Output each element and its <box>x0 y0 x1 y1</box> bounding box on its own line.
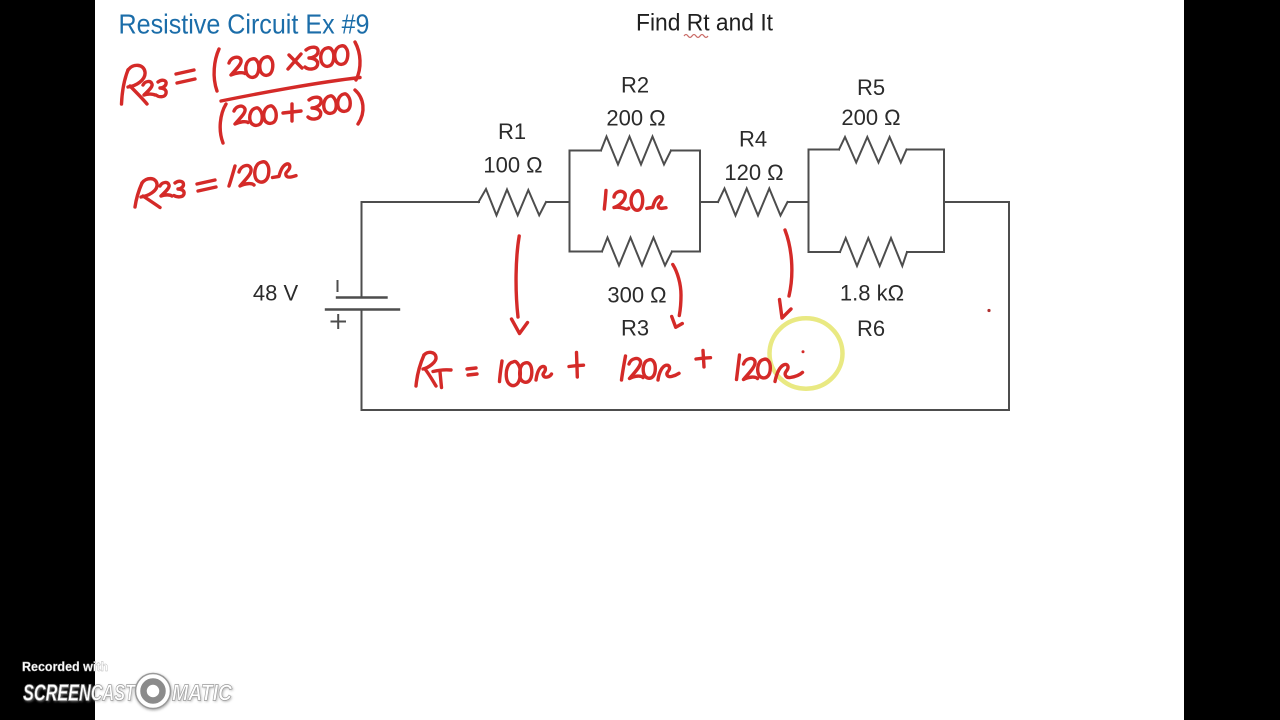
watermark shadow <box>24 674 234 711</box>
svg-text:200 Ω: 200 Ω <box>841 105 900 130</box>
parallel box R5/R6 left edge <box>808 150 810 253</box>
parallel box R5/R6 right edge <box>943 150 945 253</box>
equation omega 1 <box>536 366 552 380</box>
wire: bottom return <box>362 409 1010 411</box>
wire: box2 to right vertical <box>944 201 1009 203</box>
box2 top edge segments <box>809 149 840 151</box>
handwritten subscript 2 <box>143 81 155 95</box>
svg-text:R1: R1 <box>498 119 526 144</box>
red arrow right of R3 <box>673 265 681 316</box>
right pillarbox bar <box>1184 0 1280 720</box>
denominator digit 0 <box>250 108 263 126</box>
box1 bottom edge segments <box>570 251 603 253</box>
resistor R1 zigzag <box>479 189 547 215</box>
equation plus 2 <box>696 358 711 359</box>
line2 subscript 2 <box>160 182 172 196</box>
wire: main top left segment <box>362 201 480 203</box>
stray red dot right side <box>987 309 990 312</box>
equation 100 digit 0 <box>506 361 520 385</box>
equation 120b digit 2 <box>744 358 758 379</box>
denominator close paren <box>355 90 363 124</box>
wire: left vertical lower (battery to bottom) <box>361 310 363 410</box>
equation letter R <box>416 355 424 386</box>
svg-text:100 Ω: 100 Ω <box>483 153 542 178</box>
denominator digit 0 <box>338 94 351 112</box>
numerator digit 0 <box>260 57 273 76</box>
watermark logo O gray ring <box>144 682 163 701</box>
denominator digit 2 <box>234 106 248 124</box>
battery V1 top plate <box>337 296 387 298</box>
line2 omega <box>273 164 297 178</box>
resistor R4 zigzag <box>718 189 788 216</box>
equation 120 digit 1 <box>622 356 626 380</box>
wire: R1 to box1 <box>547 201 570 203</box>
svg-text:Find Rt and It: Find Rt and It <box>636 10 773 37</box>
svg-text:120 Ω: 120 Ω <box>724 160 783 185</box>
resistor R2 zigzag <box>601 137 671 165</box>
svg-text:1.8 kΩ: 1.8 kΩ <box>840 281 904 306</box>
handwritten subscript 3 <box>156 80 166 96</box>
box1 top edge segments <box>570 150 602 152</box>
equation 120b digit 0 <box>758 359 771 378</box>
battery V1 bottom plate <box>326 308 399 310</box>
equation 100 digit 1 <box>500 361 503 382</box>
line2 subscript 3 <box>174 181 184 197</box>
denominator digit 0 <box>264 106 277 124</box>
equation omega 2 <box>658 365 679 380</box>
battery plus sign <box>332 321 346 323</box>
svg-text:48 V: 48 V <box>253 281 299 306</box>
svg-text:R4: R4 <box>739 127 767 152</box>
resistor R3 zigzag <box>602 238 672 266</box>
svg-text:300 Ω: 300 Ω <box>607 283 666 308</box>
equation plus 1 <box>569 365 584 366</box>
denominator plus sign <box>283 111 301 113</box>
line2 digit 2 <box>239 165 254 186</box>
line2 digit 1 <box>229 166 235 186</box>
equation subscript T <box>433 370 451 372</box>
equation 120 digit 2 <box>629 358 643 378</box>
numerator close paren <box>355 42 360 80</box>
denominator open paren <box>220 104 226 143</box>
resistor R6 zigzag <box>840 238 907 266</box>
resistor R5 zigzag <box>839 137 907 163</box>
box1 handwritten digit 2 <box>614 191 629 209</box>
numerator times sign <box>289 55 302 68</box>
denominator digit 0 <box>324 96 337 114</box>
denominator digit 3 <box>308 97 321 119</box>
wire: box1 to R4 <box>700 201 718 203</box>
numerator digit 0 <box>335 46 348 65</box>
equation 120b digit 1 <box>737 355 740 380</box>
box2 bottom edge segments <box>809 251 841 253</box>
yellow highlight circle <box>770 318 843 388</box>
battery minus tick <box>337 281 339 291</box>
box1 handwritten digit 0 <box>631 191 643 210</box>
handwritten R23 (line 1) letter R <box>122 70 129 104</box>
svg-text:MATIC: MATIC <box>172 680 233 706</box>
parallel box R2/R3 right edge <box>699 151 701 252</box>
wire: right vertical <box>1008 202 1010 410</box>
svg-text:Recorded with: Recorded with <box>22 660 108 674</box>
equation 120 digit 0 <box>643 360 655 379</box>
fraction bar <box>221 78 360 102</box>
line2 digit 0 <box>255 162 269 182</box>
svg-text:R2: R2 <box>621 73 649 98</box>
svg-text:R3: R3 <box>621 316 649 341</box>
handwritten 120 ohm inside box1 digit 1 <box>604 191 606 210</box>
red arrow under R1 <box>516 236 519 317</box>
svg-text:SCREENCAST: SCREENCAST <box>23 680 136 706</box>
red dot inside yellow circle <box>802 350 805 353</box>
equation omega 3 <box>775 364 803 381</box>
svg-text:200 Ω: 200 Ω <box>606 106 665 131</box>
svg-text:R5: R5 <box>857 75 885 100</box>
svg-text:R6: R6 <box>857 316 885 341</box>
equation equals <box>467 368 476 369</box>
numerator digit 0 <box>246 59 259 78</box>
equation 100 digit 0 <box>520 363 532 383</box>
handwritten R23 (line 2) letter R <box>135 183 142 207</box>
wire: left vertical upper (to battery) <box>361 202 363 297</box>
spellcheck squiggle under Rt <box>684 35 708 38</box>
numerator digit 3 <box>305 47 318 69</box>
left pillarbox bar <box>0 0 95 720</box>
red arrow under R4 <box>785 230 792 296</box>
numerator digit 0 <box>321 48 334 67</box>
numerator digit 2 <box>229 57 245 75</box>
parallel box R2/R3 left edge <box>569 151 571 252</box>
handwritten equals <box>176 70 194 74</box>
watermark logo O outer <box>136 674 171 709</box>
svg-text:Resistive Circuit Ex #9: Resistive Circuit Ex #9 <box>119 9 370 40</box>
box1 handwritten omega <box>647 197 666 209</box>
numerator open paren <box>214 49 219 91</box>
wire: R4 to box2 <box>788 201 809 203</box>
line2 equals <box>197 180 215 184</box>
